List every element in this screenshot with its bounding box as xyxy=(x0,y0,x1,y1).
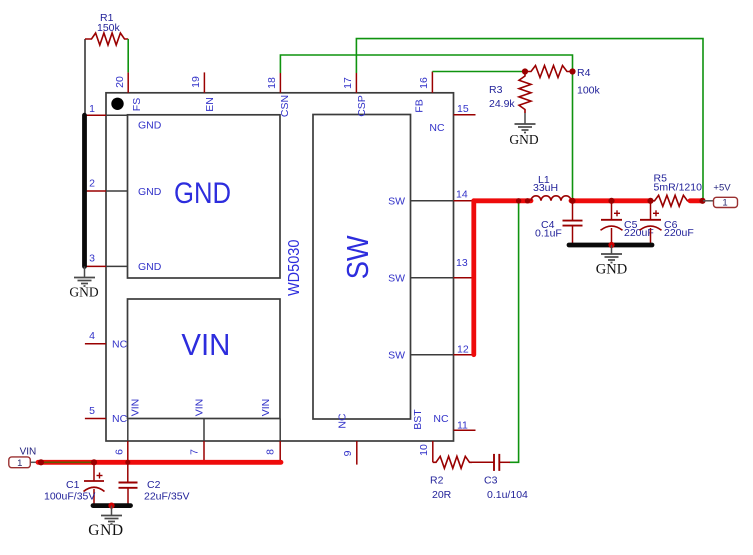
node FB junction dot xyxy=(522,68,528,74)
svg-text:NC: NC xyxy=(433,413,449,425)
resistor R2 xyxy=(430,456,472,501)
node VIN port junction xyxy=(38,459,44,465)
svg-text:1: 1 xyxy=(89,103,95,115)
svg-text:GND: GND xyxy=(174,177,231,210)
node R5 out / CSP junction xyxy=(699,198,705,204)
svg-text:SW: SW xyxy=(388,273,405,285)
node dot on bottom bar xyxy=(108,503,114,509)
svg-text:24.9k: 24.9k xyxy=(489,98,515,110)
svg-text:9: 9 xyxy=(342,450,354,456)
svg-text:100uF/35V: 100uF/35V xyxy=(44,491,95,503)
svg-text:EN: EN xyxy=(204,97,216,112)
node C1 junction xyxy=(91,459,97,465)
svg-text:R2: R2 xyxy=(430,475,444,487)
pin 16 FB xyxy=(414,72,433,113)
svg-text:BST: BST xyxy=(412,409,424,430)
node C5 junction xyxy=(608,198,614,204)
pin 14 SW xyxy=(388,188,474,207)
pin 17 CSP xyxy=(342,73,368,117)
node C2 junction xyxy=(125,460,130,465)
resistor R4 xyxy=(525,66,601,97)
svg-text:220uF: 220uF xyxy=(624,227,654,239)
capacitor C5 (polarized) xyxy=(601,201,654,245)
ground under C1/C2 xyxy=(88,506,123,539)
svg-text:CSP: CSP xyxy=(356,95,368,117)
svg-text:15: 15 xyxy=(457,103,469,115)
resistor R1 xyxy=(85,12,128,45)
svg-text:0.1u/104: 0.1u/104 xyxy=(487,489,528,501)
node dot on right bar xyxy=(608,242,614,248)
svg-text:VIN: VIN xyxy=(260,399,272,417)
svg-text:7: 7 xyxy=(189,449,201,455)
svg-text:VIN: VIN xyxy=(130,399,142,417)
svg-text:100k: 100k xyxy=(577,85,601,97)
svg-text:R3: R3 xyxy=(489,84,503,96)
pin 6 VIN xyxy=(114,399,142,463)
pin 10 BST xyxy=(412,409,433,463)
svg-text:GND: GND xyxy=(88,522,123,539)
svg-text:18: 18 xyxy=(266,77,278,89)
pin 18 CSN xyxy=(266,73,291,117)
svg-text:GND: GND xyxy=(69,285,98,300)
capacitor C6 (polarized) xyxy=(640,201,694,245)
svg-text:16: 16 xyxy=(418,77,430,89)
svg-text:20: 20 xyxy=(114,76,126,88)
wire CSP net: pin17 to R5 right xyxy=(356,39,703,201)
pin 2 GND xyxy=(85,177,162,198)
black GND bus bar left (pins 1-3) xyxy=(82,115,87,266)
svg-text:NC: NC xyxy=(337,413,349,429)
node R4 right junction dot xyxy=(569,68,575,74)
pin 13 SW xyxy=(388,257,474,285)
pin 15 NC xyxy=(429,103,475,134)
pin 7 VIN xyxy=(189,399,206,463)
pin 20 FS stub xyxy=(114,72,128,92)
svg-text:2: 2 xyxy=(89,177,95,189)
svg-text:C3: C3 xyxy=(484,475,498,487)
svg-text:R4: R4 xyxy=(577,67,591,79)
svg-text:SW: SW xyxy=(388,196,405,208)
VIN port symbol xyxy=(9,446,38,469)
ground under left bar xyxy=(69,266,98,299)
wire SW thick red to L1 xyxy=(474,198,531,203)
wire thick red R5 out xyxy=(690,198,702,203)
capacitor C3 xyxy=(472,454,528,501)
resistor R5 xyxy=(651,173,703,207)
wire CSN net: pin18 to L1 output xyxy=(280,55,572,201)
svg-text:C1: C1 xyxy=(66,479,80,491)
svg-text:GND: GND xyxy=(138,119,162,131)
svg-text:GND: GND xyxy=(596,262,627,278)
svg-text:0.1uF: 0.1uF xyxy=(535,227,562,239)
svg-text:3: 3 xyxy=(89,253,95,265)
pin 9 NC xyxy=(337,413,357,465)
svg-text:GND: GND xyxy=(138,261,162,273)
wire VIN thick red bus (bottom) xyxy=(38,460,281,465)
svg-text:33uH: 33uH xyxy=(533,182,558,194)
svg-text:17: 17 xyxy=(342,77,354,89)
svg-text:1: 1 xyxy=(17,458,22,469)
ground under C5 xyxy=(596,245,627,278)
svg-text:5mR/1210: 5mR/1210 xyxy=(654,182,703,194)
node L1 left junction xyxy=(525,198,530,203)
black GND bar bottom xyxy=(93,503,131,508)
svg-text:13: 13 xyxy=(456,257,468,269)
+5V port symbol xyxy=(703,183,738,209)
svg-text:12: 12 xyxy=(457,343,469,355)
svg-text:C2: C2 xyxy=(147,479,161,491)
SW sub-block xyxy=(313,115,411,420)
svg-text:20R: 20R xyxy=(432,489,452,501)
node BST tap junction xyxy=(516,198,521,203)
capacitor C4 xyxy=(535,201,583,245)
pin 11 NC xyxy=(433,413,475,432)
inductor L1 xyxy=(531,174,571,201)
svg-text:10: 10 xyxy=(418,444,430,456)
black GND bar right xyxy=(569,243,652,248)
svg-text:GND: GND xyxy=(509,132,538,147)
svg-text:GND: GND xyxy=(138,186,162,198)
pin 12 SW xyxy=(388,343,474,361)
wire FB net: pin16 to divider xyxy=(432,71,525,73)
svg-text:NC: NC xyxy=(112,339,128,351)
svg-text:VIN: VIN xyxy=(20,446,37,457)
svg-text:CSN: CSN xyxy=(279,95,291,117)
svg-text:150k: 150k xyxy=(97,22,121,34)
svg-text:WD5030: WD5030 xyxy=(286,239,303,296)
capacitor C1 (polarized) xyxy=(44,462,105,505)
pin 8 VIN xyxy=(260,399,280,463)
svg-text:VIN: VIN xyxy=(181,327,230,362)
wire R1 left to pin1 (black) xyxy=(84,39,86,113)
op-amp U1 WD5030 IC body outline xyxy=(106,93,454,441)
svg-text:4: 4 xyxy=(89,330,95,342)
svg-text:22uF/35V: 22uF/35V xyxy=(144,491,190,503)
svg-text:VIN: VIN xyxy=(194,399,206,417)
svg-text:FS: FS xyxy=(131,98,143,111)
svg-text:1: 1 xyxy=(722,198,727,209)
svg-text:NC: NC xyxy=(112,413,128,425)
VIN sub-block xyxy=(128,299,281,419)
pin 1 FS xyxy=(85,98,162,132)
GND sub-block xyxy=(128,115,281,278)
pin 3 GND xyxy=(85,253,162,274)
wire thick red L1 out to R5 xyxy=(571,198,651,203)
node C6 / R5 junction xyxy=(647,198,653,204)
svg-text:11: 11 xyxy=(457,420,468,432)
svg-text:220uF: 220uF xyxy=(664,227,694,239)
pin 5 NC xyxy=(85,405,128,425)
pin 4 NC xyxy=(85,330,128,350)
capacitor C2 xyxy=(119,462,190,505)
svg-text:SW: SW xyxy=(340,235,375,280)
resistor R3 xyxy=(489,72,531,114)
wire pin20 green xyxy=(127,39,129,72)
wire BST net vertical xyxy=(510,201,519,463)
svg-text:FB: FB xyxy=(414,99,426,112)
ground under R3 xyxy=(509,113,538,147)
svg-text:+5V: +5V xyxy=(713,183,731,194)
svg-text:NC: NC xyxy=(429,122,445,134)
svg-text:6: 6 xyxy=(114,449,126,455)
svg-text:14: 14 xyxy=(456,188,468,200)
svg-text:8: 8 xyxy=(265,449,277,455)
svg-text:5: 5 xyxy=(89,405,95,417)
wire SW thick red vertical (pins 12-14) xyxy=(471,201,476,355)
node L1 out / C4 / CSN junction xyxy=(569,198,575,204)
pin 19 EN xyxy=(190,72,216,111)
svg-text:19: 19 xyxy=(190,76,202,88)
svg-text:SW: SW xyxy=(388,349,405,361)
